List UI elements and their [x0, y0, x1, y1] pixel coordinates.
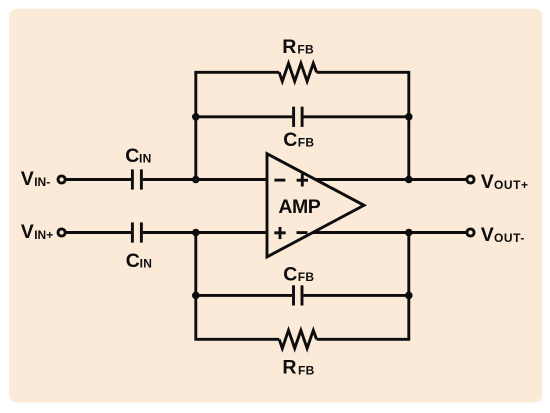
label V_IN-: [21, 168, 50, 190]
label C_IN (bottom): [126, 250, 152, 272]
svg-text:FB: FB: [298, 136, 315, 150]
svg-text:R: R: [282, 357, 296, 379]
svg-text:OUT+: OUT+: [494, 178, 529, 192]
resistor R_FB (top) zigzag: [279, 63, 316, 81]
label C_IN (top): [125, 145, 151, 167]
terminal circle V_OUT+: [467, 176, 474, 183]
label C_FB (top): [283, 129, 314, 151]
svg-text:C: C: [126, 250, 140, 272]
wire: top C_FB horizontal, right part: [304, 115, 409, 118]
terminal circle V_IN-: [58, 176, 65, 183]
capacitor C_FB (bottom) plates: [292, 285, 295, 305]
label V_OUT+: [481, 171, 529, 193]
wire: V_IN+ line from C_IN to amp non-inverting input: [143, 231, 267, 234]
junction dot: right rail / C_FB bottom: [405, 292, 413, 300]
wire: top R_FB horizontal, left part: [194, 71, 279, 74]
junction dot: left rail / C_FB top: [192, 113, 200, 121]
junction dot: left rail / V_IN- line: [192, 176, 200, 184]
wire: V_IN- line from C_IN to amp inverting input: [143, 178, 267, 181]
wire: bottom R_FB horizontal, left part: [194, 338, 279, 341]
svg-text:FB: FB: [297, 43, 314, 57]
capacitor C_IN (bottom) plates: [131, 222, 134, 242]
wire: right vertical rail, bottom feedback section: [407, 233, 410, 340]
svg-text:V: V: [21, 168, 34, 190]
junction dot: right rail / V_OUT+ line: [405, 176, 413, 184]
terminal circle V_OUT-: [467, 229, 474, 236]
wire: right vertical rail, top feedback section (x=408.8): [407, 72, 410, 179]
wire: top C_FB horizontal, left part: [196, 115, 292, 118]
svg-text:FB: FB: [298, 270, 315, 284]
svg-text:R: R: [282, 36, 296, 58]
svg-text:OUT-: OUT-: [494, 231, 525, 245]
wire: top R_FB horizontal, right part: [317, 71, 411, 74]
svg-text:IN: IN: [140, 257, 153, 271]
svg-text:C: C: [125, 145, 139, 167]
label C_FB (bottom): [283, 263, 314, 285]
svg-text:C: C: [283, 263, 297, 285]
svg-text:IN-: IN-: [34, 175, 50, 189]
capacitor C_IN (top) plates: [131, 169, 134, 189]
capacitor C_FB (top) plates: [292, 107, 295, 127]
label R_FB (bottom): [282, 357, 314, 379]
label R_FB (top): [282, 36, 314, 58]
junction dot: right rail / V_OUT- line: [405, 229, 413, 237]
junction dot: left rail / C_FB bottom: [192, 292, 200, 300]
plus sign at amp lower input: [274, 231, 285, 234]
minus sign at amp upper input: [274, 179, 285, 182]
svg-text:V: V: [21, 221, 34, 243]
svg-text:V: V: [481, 224, 494, 246]
terminal circle V_IN+: [58, 229, 65, 236]
junction dot: right rail / C_FB top: [405, 113, 413, 121]
wire: left vertical rail, bottom feedback section: [194, 233, 197, 340]
label V_IN+: [21, 221, 53, 243]
wire: V_OUT- line from amp output to terminal: [313, 231, 466, 234]
wire: V_IN- lead from terminal to C_IN: [66, 178, 131, 181]
wire: bottom C_FB horizontal, right part: [303, 294, 408, 297]
wire: bottom C_FB horizontal, left part: [196, 294, 292, 297]
wire: left vertical rail, top feedback section (x=195.8, y 72.3 to 179.5): [194, 72, 197, 179]
svg-text:AMP: AMP: [278, 196, 320, 218]
svg-text:C: C: [283, 129, 297, 151]
label V_OUT-: [481, 224, 525, 246]
resistor R_FB (bottom) zigzag: [279, 330, 316, 348]
junction dot: left rail / V_IN+ line: [192, 229, 200, 237]
minus sign at amp lower-right: [297, 231, 308, 234]
wire: bottom R_FB horizontal, right part: [317, 338, 411, 341]
svg-text:FB: FB: [298, 363, 315, 377]
plus sign at amp upper-right: [297, 179, 308, 182]
svg-text:IN+: IN+: [34, 228, 53, 242]
op-amp AMP triangle: [267, 154, 364, 257]
svg-text:V: V: [481, 171, 494, 193]
wire: V_OUT+ line from amp output to terminal: [315, 178, 466, 181]
svg-text:IN: IN: [139, 152, 152, 166]
wire: V_IN+ lead from terminal to C_IN: [66, 231, 131, 234]
